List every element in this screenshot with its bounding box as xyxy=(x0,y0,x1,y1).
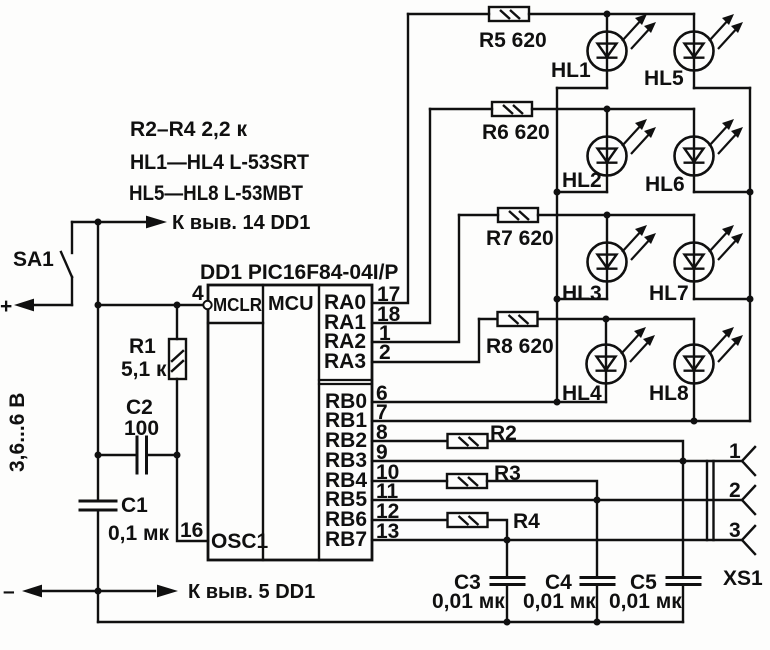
svg-text:RB7: RB7 xyxy=(325,528,367,551)
connector XS1 body xyxy=(707,461,714,540)
svg-text:HL8: HL8 xyxy=(649,382,689,405)
wire HL3 cathode row xyxy=(557,298,607,300)
pin 4 MCLR circle xyxy=(203,301,211,309)
wire HL7 lead xyxy=(693,215,695,299)
wire R8 row left xyxy=(479,318,497,320)
svg-text:0,1 мк: 0,1 мк xyxy=(108,522,170,545)
svg-text:HL7: HL7 xyxy=(649,282,689,305)
wire HL1 cathode row xyxy=(557,87,607,89)
LED HL7 xyxy=(675,225,744,282)
svg-text:+: + xyxy=(0,295,12,318)
wire HL5 lead xyxy=(693,14,695,88)
wire RB5 row xyxy=(372,499,742,501)
LED HL5 xyxy=(675,14,744,71)
svg-text:К выв. 5 DD1: К выв. 5 DD1 xyxy=(188,581,315,603)
wire R6 row left xyxy=(430,108,492,110)
svg-text:HL3: HL3 xyxy=(562,282,602,305)
svg-text:MCLR: MCLR xyxy=(213,294,262,315)
resistor R2 xyxy=(448,434,488,448)
switch SA1 blade xyxy=(61,252,72,277)
svg-text:SA1: SA1 xyxy=(13,248,54,271)
LED HL2 xyxy=(588,119,657,176)
wire pin17 RA0 xyxy=(372,14,408,303)
wire pin18 RA1 xyxy=(372,109,430,323)
wire R7 row left xyxy=(459,214,498,216)
wire R6 row right xyxy=(532,108,694,110)
wire HL5 cathode row xyxy=(694,87,750,89)
wire HL7 cathode row xyxy=(694,298,750,300)
wire right LED column xyxy=(749,88,751,421)
svg-text:0,01 мк: 0,01 мк xyxy=(609,590,682,613)
wire minus-row xyxy=(39,590,155,592)
svg-text:100: 100 xyxy=(124,417,159,440)
svg-text:HL1—HL4 L-53SRT: HL1—HL4 L-53SRT xyxy=(130,151,309,174)
resistor R7 xyxy=(498,208,538,222)
svg-text:RA3: RA3 xyxy=(324,350,366,373)
wire top VDD row xyxy=(72,221,148,223)
wire R5 row right xyxy=(529,13,694,15)
svg-text:2: 2 xyxy=(729,479,741,502)
IC DD1 PIC16F84-04I/P MCU box xyxy=(208,285,372,560)
svg-text:5,1 к: 5,1 к xyxy=(121,358,167,381)
wire left bus lower xyxy=(97,510,99,622)
MCU divider right xyxy=(318,285,320,560)
svg-text:2: 2 xyxy=(379,341,391,364)
svg-text:R2: R2 xyxy=(490,422,517,445)
svg-text:MCU: MCU xyxy=(268,293,314,315)
resistor R4 xyxy=(448,513,488,527)
arrow to pin14 xyxy=(146,216,167,229)
svg-text:C1: C1 xyxy=(121,494,148,517)
wire pin2 RA3 xyxy=(372,319,479,362)
svg-text:C2: C2 xyxy=(126,396,153,419)
wire RB2 row left xyxy=(372,440,447,442)
svg-text:3: 3 xyxy=(729,519,741,542)
capacitor C5 xyxy=(667,461,700,622)
svg-text:К выв. 14 DD1: К выв. 14 DD1 xyxy=(172,212,310,234)
svg-text:HL5: HL5 xyxy=(644,67,684,90)
arrow to plus xyxy=(14,299,34,312)
wire MCLR row xyxy=(98,304,203,306)
resistor R8 xyxy=(498,312,538,326)
XS1 pin 2 contact xyxy=(742,486,755,514)
svg-text:DD1 PIC16F84-04I/P: DD1 PIC16F84-04I/P xyxy=(200,261,398,284)
arrow to pin5 xyxy=(157,585,178,598)
wire bottom bus xyxy=(98,621,683,623)
capacitor C2 xyxy=(98,437,177,473)
RA RB split lines xyxy=(319,380,372,384)
wire RB3 row xyxy=(372,460,742,462)
svg-text:HL6: HL6 xyxy=(645,173,685,196)
wire HL2 lead xyxy=(606,109,608,192)
wire HL2 cathode row xyxy=(557,191,607,193)
svg-text:1: 1 xyxy=(729,440,741,463)
XS1 pin 1 contact xyxy=(742,447,755,475)
svg-text:3,6...6 В: 3,6...6 В xyxy=(6,393,29,472)
MCLR cell line xyxy=(208,322,263,324)
svg-text:R5 620: R5 620 xyxy=(479,29,547,52)
MCU divider left xyxy=(262,285,264,560)
wire left bus upper xyxy=(97,222,99,501)
LED HL4 xyxy=(587,327,656,384)
svg-text:R7 620: R7 620 xyxy=(486,227,554,250)
svg-text:R2–R4 2,2 к: R2–R4 2,2 к xyxy=(130,118,247,141)
LED HL3 xyxy=(588,225,657,282)
wire HL3 lead xyxy=(606,215,608,299)
wire R4 to RB7 node xyxy=(488,520,507,540)
svg-text:4: 4 xyxy=(192,282,204,305)
wire left LED column xyxy=(556,88,558,402)
resistor R3 xyxy=(447,474,487,488)
wire R8 row right xyxy=(538,318,694,320)
svg-text:R1: R1 xyxy=(129,335,156,358)
wire switch bottom lead xyxy=(71,277,73,305)
svg-text:HL5—HL8 L-53MBT: HL5—HL8 L-53MBT xyxy=(129,182,303,205)
svg-text:0,01 мк: 0,01 мк xyxy=(523,590,596,613)
wire RB1 row xyxy=(372,420,750,422)
resistor R1 xyxy=(169,305,186,455)
resistor R5 xyxy=(489,7,529,21)
LED HL8 xyxy=(675,327,744,384)
svg-text:XS1: XS1 xyxy=(723,567,763,590)
svg-text:OSC1: OSC1 xyxy=(211,530,269,553)
wire HL6 lead xyxy=(693,109,695,192)
wire RB7 row xyxy=(372,539,742,541)
svg-text:HL1: HL1 xyxy=(551,59,591,82)
svg-text:16: 16 xyxy=(180,519,203,542)
svg-text:R3: R3 xyxy=(494,462,521,485)
wire HL1 lead xyxy=(606,14,608,88)
capacitor C3 xyxy=(491,540,524,622)
wire HL6 cathode row xyxy=(694,191,750,193)
svg-text:–: – xyxy=(3,580,15,603)
wire OSC1 lead xyxy=(177,455,208,541)
svg-text:13: 13 xyxy=(376,520,399,543)
wire R3 to RB5 node xyxy=(487,481,597,500)
wire RB4 row left xyxy=(372,480,447,482)
svg-text:R8 620: R8 620 xyxy=(486,335,554,358)
wire R7 row right xyxy=(538,214,694,216)
wire pin1 RA2 xyxy=(372,215,459,342)
svg-text:R6 620: R6 620 xyxy=(482,121,550,144)
wire R5 row left xyxy=(408,13,489,15)
wire RB2 to pin1 node xyxy=(488,441,683,461)
wire RB6 row left xyxy=(372,519,447,521)
svg-text:HL4: HL4 xyxy=(562,382,602,405)
wire switch top lead xyxy=(71,222,73,253)
capacitor C1 xyxy=(80,501,116,510)
wire RB0 row xyxy=(372,401,606,403)
resistor R6 xyxy=(492,102,532,116)
svg-text:R4: R4 xyxy=(513,510,540,533)
LED HL1 xyxy=(588,14,657,71)
wire HL8 lead xyxy=(693,319,695,421)
capacitor C4 xyxy=(581,500,614,622)
XS1 pin 3 contact xyxy=(742,526,755,554)
wire HL4 lead xyxy=(605,319,607,402)
svg-text:0,01 мк: 0,01 мк xyxy=(432,590,505,613)
wire plus-row xyxy=(31,304,72,306)
svg-text:HL2: HL2 xyxy=(562,169,602,192)
LED HL6 xyxy=(675,119,744,176)
arrow to minus xyxy=(22,585,42,598)
